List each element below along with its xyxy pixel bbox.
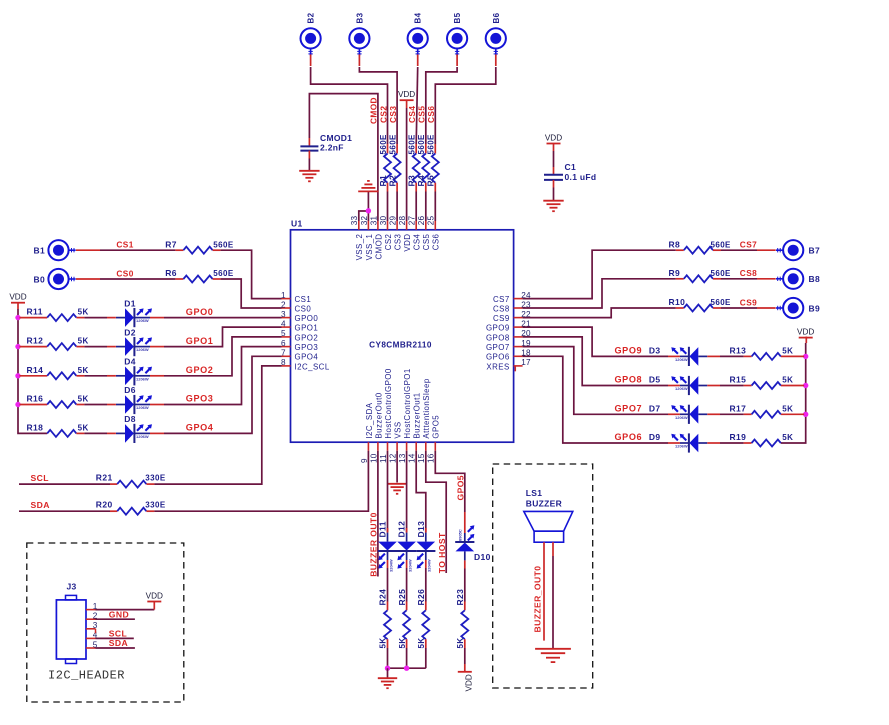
svg-text:VDD: VDD <box>465 674 474 691</box>
svg-text:5K: 5K <box>456 637 465 648</box>
wire CS2 button-to-column <box>310 54 312 66</box>
resistor R12 5K <box>27 336 89 351</box>
svg-text:R2: R2 <box>388 175 398 187</box>
LED D2 <box>116 327 152 356</box>
LED D4 <box>116 357 152 386</box>
dashed box I2C header <box>27 543 184 702</box>
svg-text:3204W: 3204W <box>427 559 432 572</box>
pin 3 GPO0 <box>281 310 318 323</box>
svg-text:BUZZER: BUZZER <box>526 499 562 509</box>
svg-text:17: 17 <box>521 358 531 367</box>
svg-text:2.2nF: 2.2nF <box>320 143 344 153</box>
junction VDD rail <box>15 373 20 378</box>
wire CMOD1 to ground <box>308 159 310 171</box>
svg-text:R12: R12 <box>27 336 44 346</box>
resistor R18 5K <box>27 422 89 437</box>
junction R25 <box>404 666 409 671</box>
junction R24 <box>385 666 390 671</box>
svg-text:D2: D2 <box>124 327 136 337</box>
wire GPO0 resistor to D1 <box>84 317 116 319</box>
svg-text:5K: 5K <box>78 308 89 317</box>
pin 30 CS2 <box>379 216 393 251</box>
pin 19 GPO7 <box>486 339 531 352</box>
pin J3-1 <box>86 602 98 611</box>
svg-text:8: 8 <box>281 358 286 367</box>
pin 11 HostControlGPO0 <box>379 368 393 463</box>
wire J3 pin3 no-connect tick <box>95 629 97 634</box>
ground VSS (inverted) <box>358 181 378 192</box>
svg-text:R7: R7 <box>165 239 177 249</box>
svg-text:CS0: CS0 <box>295 304 312 313</box>
wire GPO1 to pin 4 <box>150 327 282 347</box>
power VDD J3 <box>146 591 163 609</box>
svg-text:26: 26 <box>417 216 426 226</box>
svg-text:GND: GND <box>109 609 129 619</box>
svg-text:GPO9: GPO9 <box>486 324 510 333</box>
svg-text:CS6: CS6 <box>426 106 436 123</box>
wire SCL <box>19 483 117 485</box>
svg-text:BUZZER_OUT0: BUZZER_OUT0 <box>532 566 542 633</box>
svg-text:GPO4: GPO4 <box>186 423 214 433</box>
svg-text:HostControlGPO1: HostControlGPO1 <box>403 368 412 438</box>
svg-text:560E: 560E <box>427 134 436 155</box>
pin J3-4 <box>86 631 98 640</box>
wire D12 to R25 <box>406 560 408 602</box>
pin 27 CS4 <box>408 216 422 251</box>
wire R24 to ground join <box>387 648 389 668</box>
svg-text:30: 30 <box>379 216 388 226</box>
svg-text:CS1: CS1 <box>116 240 133 250</box>
wire CS7 to button B7 <box>721 249 776 251</box>
junction VDD rail <box>15 402 20 407</box>
wire BUZZER OUT0 pin 10 <box>377 451 379 577</box>
svg-text:VDD: VDD <box>545 133 562 142</box>
button B7 <box>776 240 803 260</box>
wire CS9 pin 22 to R10 <box>523 308 676 318</box>
resistor R17 5K <box>730 403 794 418</box>
power VDD right rail <box>797 327 814 337</box>
LED D11 <box>378 521 398 572</box>
ground VSS pin 12 <box>387 484 406 494</box>
svg-text:R21: R21 <box>96 473 113 483</box>
svg-text:TO HOST: TO HOST <box>437 532 447 573</box>
wire R23 to VDD <box>464 648 466 672</box>
resistor R20 330E <box>96 500 166 515</box>
svg-text:GPO5: GPO5 <box>456 475 466 500</box>
svg-text:560E: 560E <box>711 298 732 307</box>
pin 20 GPO8 <box>486 329 531 342</box>
svg-text:560E: 560E <box>417 134 426 155</box>
button B6 <box>486 28 506 55</box>
wire buzzer left BUZZER_OUT0 <box>543 542 545 640</box>
svg-text:28: 28 <box>398 216 407 226</box>
wire VDD to C1 <box>553 144 555 175</box>
svg-text:B6: B6 <box>492 12 501 23</box>
svg-text:D6: D6 <box>124 385 136 395</box>
pin 21 GPO9 <box>486 319 531 332</box>
svg-text:5: 5 <box>281 329 286 338</box>
capacitor CMOD1 2.2nF <box>300 133 352 159</box>
pin 7 GPO4 <box>281 349 318 362</box>
svg-text:1206W: 1206W <box>675 386 688 391</box>
svg-text:5K: 5K <box>782 433 793 442</box>
svg-text:R26: R26 <box>416 589 426 606</box>
svg-text:CS1: CS1 <box>295 295 312 304</box>
button B2 <box>301 28 321 55</box>
svg-text:R24: R24 <box>378 589 388 606</box>
svg-text:5K: 5K <box>78 337 89 346</box>
junction VDD rail right <box>803 354 808 359</box>
wire CS8 pin 23 to R9 <box>523 279 676 308</box>
resistor R6 560E <box>165 268 234 282</box>
svg-text:1: 1 <box>281 291 286 300</box>
pin 33 VSS_2 <box>350 216 364 261</box>
svg-text:1206W: 1206W <box>136 376 149 381</box>
svg-text:14: 14 <box>408 453 417 463</box>
svg-text:C1: C1 <box>565 162 576 172</box>
resistor R4 560E <box>416 134 429 192</box>
pin 32 VSS_1 <box>360 216 374 261</box>
pin 2 CS0 <box>281 300 311 313</box>
svg-text:R3: R3 <box>407 175 417 187</box>
resistor R2 560E <box>388 134 401 192</box>
pin 28 VDD <box>398 216 412 252</box>
svg-text:CS4: CS4 <box>413 233 422 250</box>
wire pin 14 to D13 <box>416 451 426 532</box>
svg-text:11: 11 <box>379 454 388 463</box>
svg-text:5K: 5K <box>782 404 793 413</box>
svg-text:6: 6 <box>281 339 286 348</box>
svg-text:560E: 560E <box>408 134 417 155</box>
junction VDD rail right <box>803 383 808 388</box>
pin J3-3 <box>86 621 98 630</box>
LED D3 <box>649 346 707 366</box>
svg-text:5K: 5K <box>417 637 426 648</box>
wire GPO7 pin 19 to D7 <box>523 347 680 415</box>
svg-text:CS3: CS3 <box>388 106 398 123</box>
wire TO HOST pin 15 <box>426 451 446 573</box>
wire CS6 button-to-column <box>495 54 497 66</box>
wire CS0 button to R6 <box>76 278 175 280</box>
speaker LS1 BUZZER <box>524 488 573 542</box>
svg-text:CS5: CS5 <box>422 233 431 250</box>
resistor R25 5K <box>397 589 410 649</box>
svg-text:D10: D10 <box>474 552 491 562</box>
LED D1 <box>116 298 152 327</box>
wire rail branch <box>20 346 48 348</box>
wire D11 to R24 <box>387 560 389 602</box>
wire GPO3 to pin 6 <box>150 347 282 405</box>
wire SDA to pin 9 <box>154 451 368 511</box>
svg-text:D5: D5 <box>649 375 661 385</box>
wire D7 to R17 <box>707 413 743 415</box>
svg-text:D13: D13 <box>416 521 426 538</box>
svg-text:CS7: CS7 <box>493 295 510 304</box>
resistor R11 5K <box>27 307 89 322</box>
wire GPO0 to pin 3 <box>150 317 282 319</box>
svg-text:B5: B5 <box>453 12 462 23</box>
svg-text:R1: R1 <box>378 175 388 187</box>
wire CS5 button-to-column <box>456 54 458 66</box>
svg-text:D7: D7 <box>649 404 661 414</box>
pin 6 GPO3 <box>281 339 318 352</box>
svg-text:32: 32 <box>360 216 369 226</box>
wire CS2 to pin 30 <box>387 192 389 222</box>
svg-text:1206W: 1206W <box>136 434 149 439</box>
svg-text:R15: R15 <box>730 375 747 385</box>
LED D6 <box>116 385 152 414</box>
resistor R21 330E <box>96 473 166 488</box>
button B8 <box>776 269 803 289</box>
wire rail branch <box>20 317 48 319</box>
svg-text:GPO7: GPO7 <box>615 404 643 414</box>
resistor R8 560E <box>669 239 732 253</box>
power VDD C1 <box>545 133 562 143</box>
svg-text:D12: D12 <box>397 521 407 538</box>
svg-text:330E: 330E <box>145 474 166 483</box>
svg-text:12: 12 <box>389 453 398 463</box>
svg-text:3: 3 <box>281 310 286 319</box>
svg-text:GPO3: GPO3 <box>295 343 319 352</box>
svg-text:330E: 330E <box>145 501 166 510</box>
svg-text:2: 2 <box>281 300 286 309</box>
svg-text:29: 29 <box>389 216 398 226</box>
junction pin 32 <box>366 208 371 213</box>
power VDD left rail <box>9 293 26 303</box>
svg-text:VDD: VDD <box>398 90 415 99</box>
svg-text:8905C: 8905C <box>458 529 463 541</box>
svg-text:XRES: XRES <box>486 362 509 371</box>
capacitor C1 0.1 uFd <box>544 162 596 182</box>
svg-text:5K: 5K <box>78 423 89 432</box>
svg-text:16: 16 <box>427 453 436 463</box>
pin 23 CS8 <box>493 300 531 313</box>
svg-text:GPO9: GPO9 <box>615 346 643 356</box>
svg-text:CMOD1: CMOD1 <box>320 133 352 143</box>
svg-text:B2: B2 <box>307 12 316 23</box>
svg-text:VSS: VSS <box>394 421 403 438</box>
svg-text:CS8: CS8 <box>493 304 510 313</box>
wire CS3 to pin 29 <box>396 192 398 222</box>
svg-text:0.1 uFd: 0.1 uFd <box>565 172 597 182</box>
svg-text:VDD: VDD <box>9 293 26 302</box>
pin 12 VSS <box>389 421 403 463</box>
button B1 <box>48 240 75 260</box>
wire R25 to ground join <box>406 648 408 668</box>
svg-text:560E: 560E <box>213 269 234 278</box>
pin 10 BuzzerOut0 <box>369 392 383 463</box>
svg-text:B3: B3 <box>355 12 364 23</box>
button B5 <box>447 28 467 55</box>
connector J3 body <box>56 582 86 664</box>
svg-text:BuzzerOut0: BuzzerOut0 <box>374 392 383 438</box>
svg-text:LS1: LS1 <box>526 488 543 498</box>
wire GPO2 to pin 5 <box>150 337 282 376</box>
resistor R26 5K <box>416 589 429 649</box>
resistor R3 560E <box>407 134 420 192</box>
pin 9 I2C_SDA <box>360 402 374 463</box>
pin 13 HostControlGPO1 <box>398 368 412 463</box>
wire CS9 to button B9 <box>721 307 776 309</box>
svg-text:R14: R14 <box>27 365 44 375</box>
svg-text:CY8CMBR2110: CY8CMBR2110 <box>369 341 432 350</box>
resistor R15 5K <box>730 375 794 390</box>
resistor R1 560E <box>378 134 391 192</box>
svg-text:VDD: VDD <box>146 591 163 600</box>
svg-text:SDA: SDA <box>31 500 50 510</box>
svg-text:R23: R23 <box>455 589 465 606</box>
pin J3-2 <box>86 612 98 621</box>
svg-text:27: 27 <box>408 216 417 226</box>
svg-text:R6: R6 <box>165 268 177 278</box>
LED D7 <box>649 404 707 424</box>
LED D5 <box>649 375 707 395</box>
pin 14 BuzzerOut1 <box>408 392 422 463</box>
svg-text:25: 25 <box>427 216 436 226</box>
button B0 <box>48 269 75 289</box>
svg-text:10: 10 <box>369 453 378 463</box>
ground CMOD1 <box>299 171 319 182</box>
wire D9 to R19 <box>707 442 743 444</box>
svg-text:VDD: VDD <box>403 234 412 252</box>
svg-text:5K: 5K <box>398 637 407 648</box>
svg-text:R10: R10 <box>669 297 686 307</box>
svg-text:1206W: 1206W <box>675 415 688 420</box>
svg-text:3: 3 <box>93 621 98 630</box>
wire GPO1 resistor to D2 <box>84 346 116 348</box>
wire GPO5 pin 16 <box>435 451 465 512</box>
svg-text:5K: 5K <box>782 376 793 385</box>
LED D9 <box>649 432 707 452</box>
wire CS0 to pin 2 <box>221 279 282 308</box>
svg-text:R25: R25 <box>397 589 407 606</box>
svg-text:R4: R4 <box>416 175 426 187</box>
svg-text:B0: B0 <box>34 274 45 284</box>
junction VDD rail right <box>803 412 808 417</box>
svg-text:GPO1: GPO1 <box>295 324 319 333</box>
op-amp U1 CY8CMBR2110 IC body <box>291 230 514 442</box>
svg-text:R16: R16 <box>27 394 44 404</box>
wire CS3 button-to-column <box>358 54 360 66</box>
svg-text:5K: 5K <box>78 395 89 404</box>
svg-text:R9: R9 <box>669 268 681 278</box>
svg-text:SCL: SCL <box>31 473 49 483</box>
pin 15 AtttentionSleep <box>417 378 431 463</box>
junction VDD rail <box>15 315 20 320</box>
svg-text:1206W: 1206W <box>136 318 149 323</box>
svg-text:B7: B7 <box>809 246 820 256</box>
resistor R7 560E <box>165 239 234 253</box>
svg-text:R11: R11 <box>27 307 43 317</box>
svg-text:3204W: 3204W <box>388 559 393 572</box>
svg-text:CS8: CS8 <box>740 268 757 278</box>
svg-text:560E: 560E <box>379 134 388 155</box>
LED D13 <box>416 521 436 572</box>
pin 18 GPO6 <box>486 349 531 362</box>
wire VDD rail left <box>18 303 47 434</box>
svg-text:CS5: CS5 <box>417 106 427 123</box>
svg-text:15: 15 <box>417 453 426 463</box>
svg-text:D1: D1 <box>124 298 136 308</box>
LED D8 <box>116 414 152 443</box>
wire VDD rail right <box>781 337 807 444</box>
pin 25 CS6 <box>427 216 441 251</box>
svg-text:GPO8: GPO8 <box>615 375 643 385</box>
wire CS7 pin 24 to R8 <box>523 250 676 298</box>
resistor R23 5K <box>455 589 468 649</box>
svg-text:HostControlGPO0: HostControlGPO0 <box>384 368 393 438</box>
svg-text:560E: 560E <box>213 240 234 249</box>
svg-text:CS6: CS6 <box>432 233 441 250</box>
dashed box buzzer <box>493 464 593 688</box>
wire rail branch right <box>781 413 804 415</box>
button B4 <box>408 28 428 55</box>
wire CMOD cap to pin 31 <box>309 94 378 221</box>
svg-text:GPO2: GPO2 <box>186 365 214 375</box>
wire GPO6 pin 18 to D9 <box>523 356 680 443</box>
wire bottom ground join <box>388 667 426 669</box>
svg-text:I2C_SDA: I2C_SDA <box>365 402 374 438</box>
pin J3-5 <box>86 640 98 649</box>
pin 1 CS1 <box>281 291 311 304</box>
svg-text:B1: B1 <box>34 246 45 256</box>
svg-text:D3: D3 <box>649 346 661 356</box>
svg-text:CS0: CS0 <box>116 268 133 278</box>
resistor R24 5K <box>378 589 391 649</box>
pin 16 GPO5 <box>427 415 441 463</box>
svg-text:AtttentionSleep: AtttentionSleep <box>422 378 431 438</box>
svg-text:R18: R18 <box>27 422 44 432</box>
svg-text:GPO3: GPO3 <box>186 394 214 404</box>
svg-text:CS7: CS7 <box>740 240 757 250</box>
svg-text:VDD: VDD <box>797 327 814 336</box>
svg-text:5K: 5K <box>782 346 793 355</box>
svg-text:GPO8: GPO8 <box>486 333 510 342</box>
svg-text:31: 31 <box>369 216 378 226</box>
svg-text:13: 13 <box>398 453 407 463</box>
wire join to ground <box>387 668 389 678</box>
wire GPO8 pin 20 to D5 <box>523 337 680 386</box>
wire J3 pin1 to VDD <box>96 609 155 611</box>
resistor R13 5K <box>730 345 794 360</box>
wire GPO4 resistor to D8 <box>84 432 116 434</box>
svg-text:CS4: CS4 <box>407 106 417 123</box>
wire rail branch right <box>781 355 804 357</box>
svg-text:SCL: SCL <box>109 629 127 639</box>
svg-text:1206W: 1206W <box>136 347 149 352</box>
resistor R14 5K <box>27 365 89 380</box>
svg-text:7: 7 <box>281 349 286 358</box>
wire CS8 to button B8 <box>721 278 776 280</box>
svg-text:1206W: 1206W <box>675 357 688 362</box>
wire CS1 to pin 1 <box>221 250 282 298</box>
resistor R10 560E <box>669 297 732 311</box>
wire CS4 button-to-column <box>417 54 419 66</box>
LED D10 <box>455 512 491 562</box>
svg-text:VSS_1: VSS_1 <box>365 234 374 261</box>
wire rail branch <box>20 375 48 377</box>
ground bottom <box>378 678 397 688</box>
pin 8 I2C_SCL <box>281 358 330 371</box>
svg-text:B4: B4 <box>414 12 423 23</box>
wire SCL to pin 8 <box>154 366 281 484</box>
wire rail branch <box>20 404 48 406</box>
svg-text:CS9: CS9 <box>740 297 757 307</box>
svg-text:CS2: CS2 <box>378 106 388 123</box>
pin 22 CS9 <box>493 310 531 323</box>
wire D5 to R15 <box>707 385 743 387</box>
svg-text:J3: J3 <box>67 582 77 592</box>
